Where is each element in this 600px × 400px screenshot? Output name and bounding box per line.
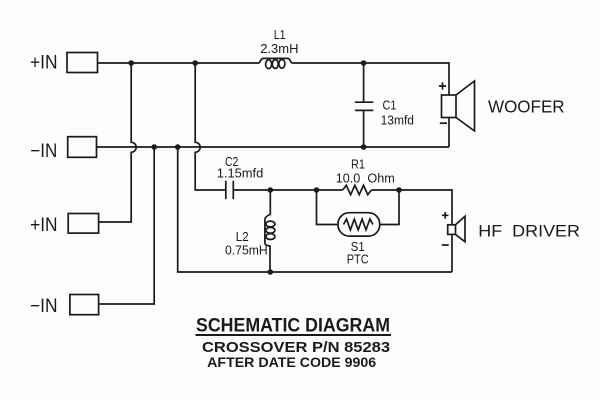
svg-text:L1: L1 <box>274 27 286 42</box>
svg-text:SCHEMATIC DIAGRAM: SCHEMATIC DIAGRAM <box>196 315 390 337</box>
svg-text:−IN: −IN <box>30 141 57 162</box>
svg-text:+IN: +IN <box>30 52 58 73</box>
svg-text:13mfd: 13mfd <box>381 113 414 128</box>
svg-text:R1: R1 <box>351 157 365 172</box>
svg-text:1.15mfd: 1.15mfd <box>217 166 264 181</box>
svg-text:+IN: +IN <box>30 215 57 236</box>
svg-text:−IN: −IN <box>30 296 58 317</box>
svg-text:10.0 Ohm: 10.0 Ohm <box>336 171 395 186</box>
svg-text:HF DRIVER: HF DRIVER <box>478 223 580 241</box>
svg-text:C1: C1 <box>383 98 397 113</box>
svg-text:WOOFER: WOOFER <box>488 97 565 117</box>
svg-text:2.3mH: 2.3mH <box>260 41 298 56</box>
svg-text:AFTER DATE CODE 9906: AFTER DATE CODE 9906 <box>207 354 376 370</box>
svg-text:PTC: PTC <box>347 252 369 267</box>
svg-text:0.75mH: 0.75mH <box>225 243 268 258</box>
